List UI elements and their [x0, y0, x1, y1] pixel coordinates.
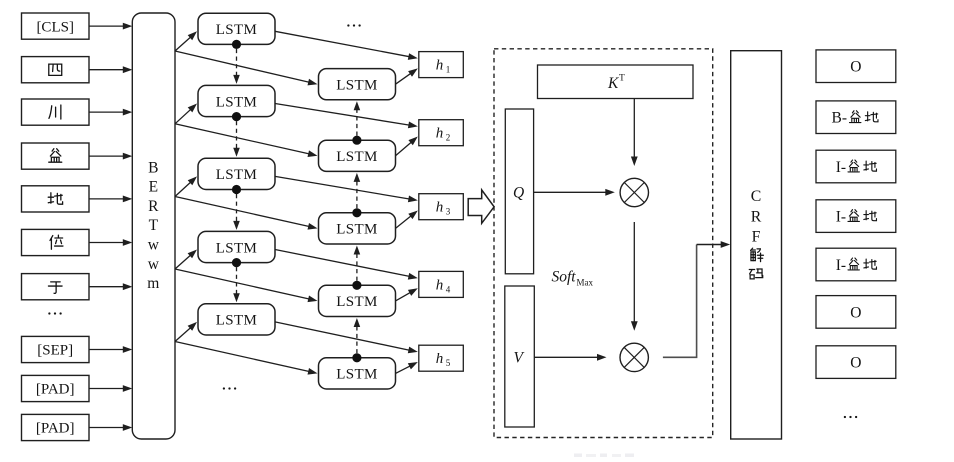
- arrow [CLS] to BERT: [89, 23, 132, 30]
- svg-text:LSTM: LSTM: [336, 294, 378, 310]
- svg-text:K: K: [607, 75, 619, 92]
- arrow matmul 1 to matmul 2: [631, 222, 638, 331]
- forward LSTM box 3: [198, 158, 275, 189]
- hidden state box h5: [419, 345, 464, 371]
- arrow forward LSTM 2 to h2: [275, 104, 418, 129]
- input token box 地: [22, 186, 90, 212]
- svg-text:w: w: [148, 256, 160, 273]
- elbow connector matmul 2 to CRF: [663, 241, 730, 357]
- dashed arrow forward LSTM 3 to 4: [233, 194, 240, 230]
- input token box [PAD]: [22, 414, 90, 440]
- arrow 川 to BERT: [89, 109, 132, 116]
- svg-text:LSTM: LSTM: [336, 149, 378, 165]
- svg-text:LSTM: LSTM: [336, 78, 378, 94]
- output label box B-盆地 2: [816, 101, 896, 134]
- svg-text:R: R: [148, 198, 159, 215]
- dashed arrow backward LSTM 5 to 4: [354, 318, 361, 353]
- hidden state box h2: [419, 120, 464, 146]
- CRF decoder box: [731, 51, 782, 439]
- svg-text:[PAD]: [PAD]: [36, 382, 75, 398]
- dashed attention module frame: [494, 49, 713, 438]
- svg-text:w: w: [148, 237, 160, 254]
- svg-text:C: C: [751, 188, 762, 205]
- backward LSTM box 4: [319, 285, 396, 316]
- ellipsis bottom of forward LSTM column: [223, 387, 237, 389]
- svg-text:E: E: [149, 179, 158, 196]
- svg-text:B: B: [148, 159, 158, 176]
- svg-text:[CLS]: [CLS]: [36, 19, 74, 35]
- arrow BERT to backward LSTM 2: [175, 124, 318, 157]
- output label box I-盆地 4: [816, 200, 896, 233]
- arrow [PAD] to BERT: [89, 424, 132, 431]
- forward LSTM box 4: [198, 231, 275, 262]
- svg-text:5: 5: [446, 358, 451, 368]
- input token box [SEP]: [22, 336, 90, 362]
- backward LSTM box 3: [319, 213, 396, 244]
- state dot on forward LSTM 4: [232, 258, 241, 267]
- arrow BERT to forward LSTM 5: [175, 322, 197, 342]
- svg-text:Q: Q: [513, 185, 524, 202]
- dashed arrow backward LSTM 4 to 3: [354, 246, 361, 281]
- svg-text:LSTM: LSTM: [216, 313, 258, 329]
- svg-text:1: 1: [446, 65, 451, 75]
- arrow 盆 to BERT: [89, 153, 132, 160]
- hidden state box h4: [419, 271, 464, 297]
- svg-text:I-: I-: [836, 159, 846, 176]
- svg-text:LSTM: LSTM: [216, 94, 258, 110]
- dashed arrow forward LSTM 2 to 3: [233, 121, 240, 157]
- svg-text:2: 2: [446, 133, 451, 143]
- input token box 位: [22, 229, 90, 255]
- arrow [SEP] to BERT: [89, 346, 132, 353]
- input token box [PAD]: [22, 375, 90, 401]
- backward LSTM box 1: [319, 69, 396, 100]
- K transpose box: [538, 65, 694, 99]
- ellipsis top of LSTM columns: [347, 24, 361, 26]
- forward LSTM box 5: [198, 304, 275, 335]
- faint caption fragment at bottom edge: [574, 454, 634, 458]
- arrow backward LSTM 1 to h1: [396, 68, 418, 84]
- svg-text:LSTM: LSTM: [216, 22, 258, 38]
- arrow backward LSTM 4 to h4: [396, 288, 418, 301]
- backward LSTM box 5: [319, 358, 396, 389]
- hidden state box h3: [419, 194, 464, 220]
- state dot on backward LSTM 3: [352, 208, 361, 217]
- svg-text:h: h: [436, 277, 444, 293]
- arrow V to matmul 2: [534, 354, 606, 361]
- svg-text:[PAD]: [PAD]: [36, 421, 75, 437]
- dashed arrow forward LSTM 1 to 2: [233, 49, 240, 84]
- svg-text:O: O: [850, 59, 861, 76]
- arrow backward LSTM 5 to h5: [396, 362, 418, 373]
- arrow BERT to backward LSTM 3: [175, 197, 318, 230]
- dashed arrow backward LSTM 2 to 1: [354, 101, 361, 135]
- dashed arrow forward LSTM 4 to 5: [233, 267, 240, 302]
- state dot on backward LSTM 2: [352, 136, 361, 145]
- svg-text:h: h: [436, 58, 444, 74]
- arrow backward LSTM 2 to h2: [396, 137, 418, 156]
- state dot on forward LSTM 1: [232, 40, 241, 49]
- input token box 于: [22, 274, 90, 300]
- ellipsis between 于 and [SEP]: [48, 312, 61, 314]
- svg-text:V: V: [514, 350, 525, 367]
- arrow [PAD] to BERT: [89, 385, 132, 392]
- arrow 四 to BERT: [89, 66, 132, 73]
- state dot on forward LSTM 2: [232, 112, 241, 121]
- svg-text:LSTM: LSTM: [216, 167, 258, 183]
- arrow BERT to forward LSTM 4: [175, 250, 197, 270]
- BERT-wwm encoder box: [132, 13, 175, 439]
- arrow 地 to BERT: [89, 196, 132, 203]
- output label box I-盆地 3: [816, 150, 896, 183]
- input token box 四: [22, 57, 90, 83]
- output label box O 7: [816, 346, 896, 379]
- arrow 于 to BERT: [89, 283, 132, 290]
- svg-text:B-: B-: [832, 110, 848, 127]
- svg-text:I-: I-: [836, 257, 846, 274]
- arrow BERT to forward LSTM 3: [175, 176, 197, 196]
- input token box 川: [22, 99, 90, 125]
- svg-text:LSTM: LSTM: [216, 240, 258, 256]
- output label box O 6: [816, 296, 896, 329]
- ellipsis below output column: [844, 416, 857, 418]
- svg-text:m: m: [147, 275, 159, 292]
- arrow BERT to forward LSTM 1: [175, 31, 197, 51]
- SoftMax label: [552, 269, 594, 288]
- backward LSTM box 2: [319, 140, 396, 171]
- input token box [CLS]: [22, 13, 90, 39]
- svg-text:LSTM: LSTM: [336, 222, 378, 238]
- arrow BERT to backward LSTM 4: [175, 269, 318, 302]
- output label box I-盆地 5: [816, 248, 896, 281]
- hidden state box h1: [419, 52, 464, 78]
- arrow BERT to backward LSTM 5: [175, 342, 318, 375]
- dashed arrow backward LSTM 3 to 2: [354, 173, 361, 208]
- arrow backward LSTM 3 to h3: [396, 211, 418, 229]
- arrow K to matmul 1: [631, 99, 638, 167]
- svg-text:Soft: Soft: [552, 269, 577, 286]
- output label box O 1: [816, 50, 896, 83]
- svg-text:Max: Max: [577, 278, 594, 288]
- svg-text:h: h: [436, 200, 444, 216]
- state dot on forward LSTM 3: [232, 185, 241, 194]
- arrow BERT to forward LSTM 2: [175, 104, 197, 124]
- svg-text:O: O: [850, 355, 861, 372]
- svg-text:LSTM: LSTM: [336, 367, 378, 383]
- V box: [505, 286, 535, 427]
- arrow 位 to BERT: [89, 239, 132, 246]
- svg-text:I-: I-: [836, 209, 846, 226]
- arrow BERT to backward LSTM 1: [175, 51, 318, 85]
- state dot on backward LSTM 4: [352, 281, 361, 290]
- svg-text:T: T: [149, 217, 159, 234]
- arrow forward LSTM 1 to h1: [275, 31, 418, 60]
- svg-text:4: 4: [446, 284, 451, 294]
- svg-text:T: T: [619, 74, 625, 84]
- block arrow into attention module: [468, 190, 494, 223]
- svg-text:O: O: [850, 304, 861, 321]
- svg-text:[SEP]: [SEP]: [37, 343, 73, 359]
- matmul circle-cross operator 2: [620, 343, 648, 371]
- arrow forward LSTM 5 to h5: [275, 322, 418, 353]
- arrow Q to matmul 1: [534, 189, 615, 196]
- svg-text:h: h: [436, 126, 444, 142]
- svg-text:R: R: [751, 209, 762, 226]
- svg-text:F: F: [752, 228, 761, 245]
- svg-text:3: 3: [446, 207, 451, 217]
- matmul circle-cross operator 1: [620, 178, 648, 206]
- input token box 盆: [22, 143, 90, 169]
- Q box: [505, 109, 533, 274]
- svg-text:h: h: [436, 351, 444, 367]
- forward LSTM box 1: [198, 13, 275, 44]
- forward LSTM box 2: [198, 85, 275, 116]
- arrow forward LSTM 4 to h4: [275, 250, 418, 280]
- state dot on backward LSTM 5: [352, 353, 361, 362]
- arrow forward LSTM 3 to h3: [275, 176, 418, 202]
